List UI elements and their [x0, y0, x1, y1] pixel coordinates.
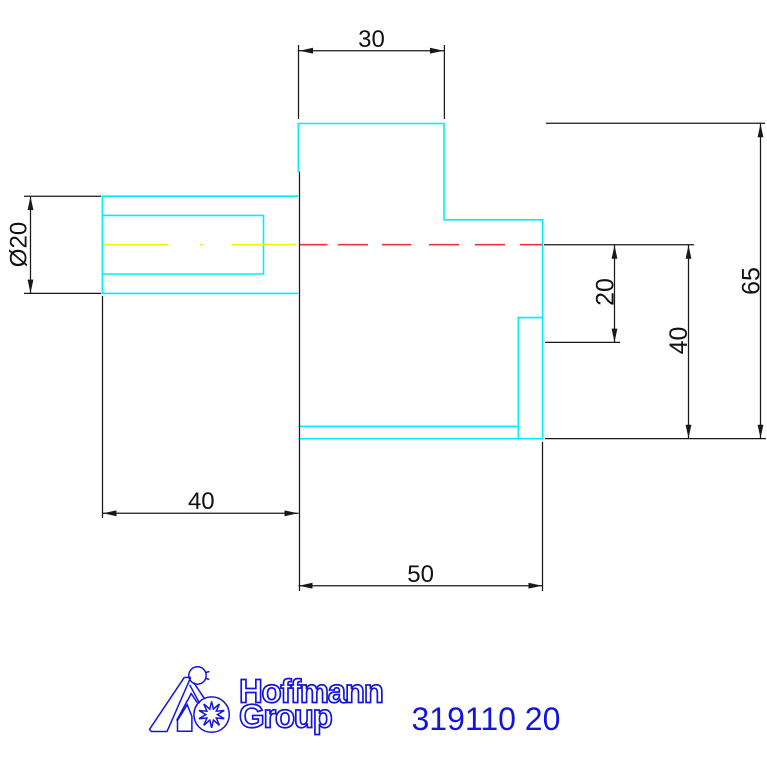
svg-text:30: 30 — [358, 26, 385, 53]
arrowhead 40 right bottom — [686, 425, 692, 439]
arrowhead 20 right top — [612, 245, 618, 259]
cylinder boss — [102, 196, 298, 293]
extension line 30 right — [443, 45, 445, 119]
yellow centerline — [105, 244, 297, 246]
dimension line 50 — [299, 585, 543, 587]
arrowhead 30 right — [430, 48, 444, 54]
logo star — [199, 701, 224, 727]
logo neck shelf — [184, 676, 190, 678]
arrowhead d20 bottom — [28, 280, 34, 294]
arrowhead 40 bottom right — [285, 510, 299, 516]
svg-text:40: 40 — [665, 327, 693, 355]
dimension line 30 — [299, 50, 444, 52]
logo head circle — [189, 667, 206, 684]
extension line d20 bottom — [24, 292, 101, 294]
svg-text:Ø20: Ø20 — [6, 222, 33, 267]
arrowhead 50 right — [529, 583, 543, 589]
arrowhead 20 right bottom — [612, 329, 618, 343]
extension line 65 top — [546, 122, 765, 124]
svg-text:319110 20: 319110 20 — [412, 701, 561, 737]
extension line 40 left — [102, 296, 104, 518]
logo bottle — [178, 705, 192, 732]
bore hole — [102, 215, 263, 274]
arrowhead 65 bottom — [758, 425, 764, 439]
svg-text:Group: Group — [239, 698, 332, 735]
part body outline — [102, 124, 542, 439]
logo mark — [150, 667, 230, 733]
dimension texts — [6, 26, 766, 588]
dimension line d20 — [30, 196, 32, 293]
extension line 30 left — [298, 45, 300, 119]
arrowhead 40 bottom left — [103, 510, 117, 516]
extension line 40-50 shared — [299, 172, 301, 592]
svg-text:65: 65 — [738, 267, 766, 295]
arrowhead 65 top — [758, 124, 764, 138]
arrowhead 40 right top — [686, 245, 692, 259]
arrowhead 30 left — [300, 48, 314, 54]
part inner bottom edge — [298, 425, 518, 427]
dimension line 40 right — [688, 245, 690, 439]
logo back strip — [190, 682, 205, 703]
dimension line 65 — [760, 123, 762, 438]
red centerline — [299, 244, 543, 246]
logo gear circle — [194, 697, 229, 732]
logo head ticks — [206, 672, 210, 680]
part right notch — [518, 318, 542, 439]
dimension line 40 bottom — [103, 512, 299, 514]
arrowhead 50 left — [299, 583, 313, 589]
extension line d20 top — [24, 195, 101, 197]
svg-text:20: 20 — [592, 278, 620, 306]
logo small peak — [177, 694, 198, 721]
extension line 50 right — [542, 442, 544, 591]
extension line 65-40 bottom — [545, 438, 766, 440]
svg-text:40: 40 — [188, 488, 215, 515]
svg-text:50: 50 — [407, 561, 434, 588]
logo big leg — [150, 677, 191, 731]
extension line 20 bottom right — [545, 341, 620, 343]
arrowhead d20 top — [28, 197, 34, 211]
dimension line 20 right — [614, 245, 616, 342]
extension line 20-40 top right — [544, 244, 694, 246]
